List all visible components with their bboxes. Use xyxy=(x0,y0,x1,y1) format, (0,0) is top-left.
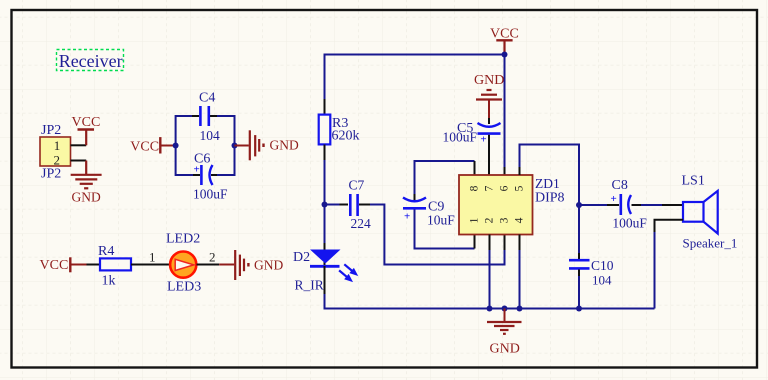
ground GND (top, inverted earth) xyxy=(474,73,504,118)
wire LED to GND, pin 2 xyxy=(197,264,220,266)
capacitor C5 (polarized) xyxy=(443,118,501,175)
node junction at VCC tap xyxy=(502,52,508,58)
svg-text:C4: C4 xyxy=(199,91,215,106)
capacitor C8 (polarized) xyxy=(579,178,683,231)
wire pin2 stub xyxy=(71,160,87,162)
svg-text:DIP8: DIP8 xyxy=(535,191,565,206)
svg-text:2: 2 xyxy=(484,217,496,223)
wire R3 bottom to D2 xyxy=(324,145,326,161)
svg-text:C8: C8 xyxy=(612,178,628,193)
svg-text:+: + xyxy=(194,163,200,175)
svg-text:+: + xyxy=(611,193,617,205)
svg-text:LS1: LS1 xyxy=(682,174,705,189)
capacitor C7 xyxy=(325,177,372,231)
svg-text:100uF: 100uF xyxy=(193,187,228,202)
svg-text:JP2: JP2 xyxy=(41,167,61,182)
svg-text:1k: 1k xyxy=(102,274,116,289)
svg-text:100uF: 100uF xyxy=(443,129,478,144)
svg-text:C10: C10 xyxy=(591,258,614,273)
svg-text:7: 7 xyxy=(484,185,496,191)
wire pin1 stub xyxy=(71,144,87,146)
wire speaker return to bus xyxy=(655,220,684,232)
svg-text:1: 1 xyxy=(54,138,61,153)
svg-text:2: 2 xyxy=(54,152,61,167)
wire R4 to LED, pin 1 xyxy=(131,264,169,266)
capacitor C9 (polarized) + loop to pins 8/1 xyxy=(403,161,475,249)
svg-text:8: 8 xyxy=(469,185,481,191)
wire pin4 to bus xyxy=(519,235,521,251)
wire pin6 stub xyxy=(504,167,506,175)
IR arrows xyxy=(339,264,357,281)
svg-text:GND: GND xyxy=(254,257,283,272)
svg-text:104: 104 xyxy=(200,128,221,143)
svg-text:VCC: VCC xyxy=(130,139,159,154)
svg-text:Receiver: Receiver xyxy=(59,51,123,71)
svg-text:LED3: LED3 xyxy=(167,280,201,295)
svg-text:C7: C7 xyxy=(349,177,365,192)
svg-text:VCC: VCC xyxy=(40,258,69,273)
wire pin5 stub and to C8 junction xyxy=(519,167,521,175)
ground GND (C4/C6, sideways bar style) xyxy=(235,130,299,160)
power VCC (C4/C6 loop) xyxy=(130,137,175,154)
IC ZD1 DIP8 xyxy=(459,175,565,235)
wire C4/C6 loop xyxy=(173,116,238,175)
diode D2 (IR receiver) xyxy=(293,243,341,293)
node junctions on bus xyxy=(487,306,493,312)
svg-text:104: 104 xyxy=(592,272,612,287)
wire IC pin8 stub xyxy=(474,161,476,175)
svg-text:1: 1 xyxy=(469,217,481,223)
node junction C7 tap xyxy=(322,202,328,208)
ground GND (LED, sideways bar style) xyxy=(219,250,283,280)
ground GND (JP2) xyxy=(71,161,102,205)
svg-text:D2: D2 xyxy=(293,250,310,265)
LED LED2/LED3 xyxy=(166,232,201,295)
svg-text:4: 4 xyxy=(514,217,526,223)
svg-text:2: 2 xyxy=(209,250,216,265)
wire R3 top stub xyxy=(324,99,326,115)
svg-text:+: + xyxy=(480,134,486,146)
svg-text:GND: GND xyxy=(270,138,299,153)
wire D2 to ground bus (bottom bus) xyxy=(324,266,326,294)
svg-text:ZD1: ZD1 xyxy=(535,176,560,191)
svg-text:JP2: JP2 xyxy=(41,123,61,138)
capacitor C6 (polarized) xyxy=(193,152,228,202)
speaker LS1 xyxy=(682,174,738,251)
svg-text:R4: R4 xyxy=(98,244,114,259)
svg-text:GND: GND xyxy=(474,73,504,88)
svg-text:VCC: VCC xyxy=(72,115,101,130)
svg-text:LED2: LED2 xyxy=(166,232,200,247)
svg-text:R_IR: R_IR xyxy=(295,278,324,293)
svg-text:GND: GND xyxy=(72,189,101,204)
capacitor C10 xyxy=(569,205,614,309)
svg-text:1: 1 xyxy=(149,250,156,265)
svg-text:Speaker_1: Speaker_1 xyxy=(683,236,738,251)
node junction at C8 tap xyxy=(576,202,582,208)
power VCC (JP2) xyxy=(72,115,101,145)
svg-text:5: 5 xyxy=(514,185,526,191)
svg-text:3: 3 xyxy=(499,217,511,223)
svg-text:100uF: 100uF xyxy=(612,216,647,231)
capacitor C4 xyxy=(199,91,220,143)
resistor R3 xyxy=(319,115,360,145)
wire pin2 to bus xyxy=(489,235,491,251)
ground GND (bottom earth) xyxy=(487,309,522,357)
svg-text:620k: 620k xyxy=(332,129,360,144)
wire VCC to R4 xyxy=(87,264,101,266)
svg-text:224: 224 xyxy=(351,216,372,231)
power VCC (top rail) xyxy=(490,27,519,55)
wire IC pin1 stub xyxy=(474,235,476,249)
svg-text:10uF: 10uF xyxy=(427,213,455,228)
wire C7 to pin3 xyxy=(370,205,505,265)
wire top rail xyxy=(325,55,505,168)
connector JP2 xyxy=(40,123,71,182)
power VCC (LED row) xyxy=(40,257,87,273)
resistor R4 xyxy=(98,244,131,289)
title Receiver xyxy=(57,50,124,71)
svg-text:+: + xyxy=(404,211,410,223)
svg-text:GND: GND xyxy=(490,341,520,356)
svg-text:6: 6 xyxy=(499,185,511,191)
